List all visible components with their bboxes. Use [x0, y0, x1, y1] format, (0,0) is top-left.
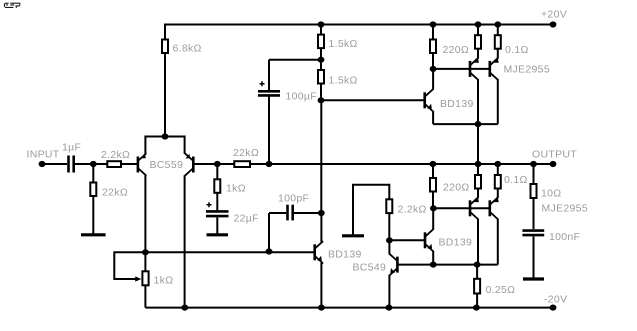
wire lower base bus — [433, 207, 489, 209]
wire top rail +20V — [164, 24, 553, 26]
svg-text:220Ω: 220Ω — [443, 182, 470, 194]
resistor R 22k input — [90, 164, 128, 234]
svg-text:2.2kΩ: 2.2kΩ — [101, 149, 130, 161]
wire to output rail — [477, 124, 479, 164]
capacitor C1 1uF — [62, 142, 81, 173]
wire bootstrap — [269, 59, 321, 61]
node output rail c — [494, 161, 501, 167]
node 100uF to rail — [266, 161, 273, 167]
node INPUT terminal — [27, 149, 60, 168]
svg-text:OUTPUT: OUTPUT — [532, 149, 577, 161]
trimmer VR 1k — [114, 252, 173, 307]
transistor Q1 BC559 left — [138, 136, 183, 253]
node 100pF left lower — [266, 248, 273, 254]
resistor R 0.25 — [474, 265, 515, 308]
transistor Q8 BD139 upper driver — [425, 69, 474, 124]
node -20V terminal — [544, 294, 567, 311]
svg-text:22kΩ: 22kΩ — [233, 147, 259, 159]
resistor R 0.1 lower 2 — [495, 164, 528, 189]
node output rail d — [530, 161, 537, 167]
svg-text:MJE2955: MJE2955 — [504, 64, 550, 76]
wire VAS base — [145, 251, 313, 253]
capacitor C 100uF — [258, 60, 317, 164]
svg-text:1kΩ: 1kΩ — [226, 183, 246, 195]
svg-text:22µF: 22µF — [234, 213, 259, 225]
node bottom rail j3 — [386, 305, 393, 311]
node output rail b — [475, 161, 482, 167]
resistor R 6.8k — [162, 24, 202, 137]
capacitor C 100nF zobel — [522, 231, 580, 278]
svg-text:MJE2955: MJE2955 — [542, 203, 588, 215]
resistor R 0.1 upper 1 — [475, 25, 481, 49]
svg-text:2.2kΩ: 2.2kΩ — [398, 204, 427, 216]
svg-text:100nF: 100nF — [549, 231, 580, 243]
svg-text:-20V: -20V — [544, 294, 567, 306]
wire BC559 right base — [194, 163, 234, 165]
transistor Q6 MJE2955 lower 1 — [470, 189, 479, 265]
node upper drive — [430, 66, 437, 72]
node +20V terminal — [541, 9, 567, 28]
svg-text:0.1Ω: 0.1Ω — [505, 44, 529, 56]
node OUTPUT terminal — [532, 149, 577, 168]
node feedback — [214, 161, 221, 167]
svg-text:0.25Ω: 0.25Ω — [486, 284, 516, 296]
resistor R 1.5k lower — [318, 60, 358, 101]
svg-text:BC549: BC549 — [353, 262, 387, 274]
node VAS drive — [318, 97, 325, 103]
node bootstrap mid — [318, 57, 325, 63]
node lower drive — [430, 205, 437, 211]
transistor Q2 BC559 right (mirrored) — [185, 136, 194, 308]
transistor Q10 MJE2955 upper 2 — [490, 49, 550, 124]
ground 22uF — [207, 233, 229, 236]
resistor R 22k feedback — [233, 147, 259, 167]
svg-text:6.8kΩ: 6.8kΩ — [173, 43, 202, 55]
svg-text:BD139: BD139 — [439, 237, 473, 249]
svg-text:100pF: 100pF — [278, 193, 309, 205]
node top rail e2 — [494, 21, 501, 27]
wire VAS vertical — [320, 100, 322, 213]
wire drive to BD139 — [321, 99, 424, 101]
resistor R 220 lower — [430, 164, 470, 208]
node top rail 1.5k — [318, 21, 325, 27]
node input junction — [90, 161, 97, 167]
svg-text:220Ω: 220Ω — [443, 44, 470, 56]
ground zobel — [523, 277, 544, 280]
node bottom rail j4 — [473, 305, 480, 311]
node top rail 220 — [430, 21, 437, 27]
node bottom rail j2 — [318, 305, 325, 311]
node BC559 common emitter — [162, 133, 169, 139]
resistor R 1k feedback — [214, 164, 246, 210]
resistor R 220 upper — [430, 25, 469, 69]
ground bias network — [342, 185, 389, 236]
transistor Q4 BC549 (mirrored) — [353, 240, 398, 307]
wire upper base bus — [433, 68, 490, 70]
resistor R 2.2k bias — [386, 199, 426, 240]
wire BC549 base — [398, 264, 497, 266]
node BD139 emitter junction — [430, 262, 437, 268]
resistor R 10 zobel — [531, 164, 588, 229]
node top rail e1 — [475, 21, 482, 27]
svg-text:1µF: 1µF — [62, 142, 81, 154]
svg-text:1.5kΩ: 1.5kΩ — [329, 75, 358, 87]
node bottom rail j1 — [181, 305, 188, 311]
wire bias to BD139 base — [389, 239, 424, 241]
node upper output — [475, 121, 482, 127]
transistor Q7 MJE2955 lower 2 — [490, 189, 499, 265]
wire input — [42, 163, 67, 165]
wire emitter tie bar — [145, 136, 184, 138]
capacitor C 100pF — [269, 193, 321, 252]
resistor R 2.2k input — [101, 149, 137, 167]
svg-text:22kΩ: 22kΩ — [102, 187, 128, 199]
svg-text:100µF: 100µF — [286, 91, 317, 103]
ground input — [81, 233, 106, 236]
node 100pF right — [318, 210, 325, 216]
resistor R 1.5k upper — [318, 25, 358, 60]
wire bottom rail -20V — [145, 307, 553, 309]
svg-text:0.1Ω: 0.1Ω — [504, 174, 528, 186]
svg-text:+20V: +20V — [541, 9, 567, 21]
node output rail a — [430, 161, 437, 167]
svg-text:1kΩ: 1kΩ — [154, 275, 174, 287]
svg-text:BD139: BD139 — [440, 98, 474, 110]
resistor R 0.1 upper 2 — [495, 25, 529, 57]
node bias — [386, 237, 393, 243]
transistor Q5 BD139 lower driver — [425, 208, 472, 264]
esp logo — [4, 3, 20, 8]
svg-text:INPUT: INPUT — [27, 149, 60, 161]
node 0.25 junction — [474, 262, 481, 268]
svg-text:BD139: BD139 — [328, 249, 362, 261]
node VAS base wire left — [142, 249, 149, 255]
wire upper output bus — [433, 123, 498, 125]
capacitor C 22uF — [206, 202, 259, 233]
wire mid rail to output — [250, 163, 553, 165]
resistor R 0.1 lower 1 — [475, 164, 481, 189]
transistor Q3 BD139 lower-left — [315, 213, 362, 308]
wire to node — [75, 163, 107, 165]
transistor Q9 MJE2955 upper 1 — [470, 49, 479, 124]
svg-text:10Ω: 10Ω — [541, 188, 561, 200]
svg-text:BC559: BC559 — [150, 159, 184, 171]
svg-text:1.5kΩ: 1.5kΩ — [329, 38, 358, 50]
